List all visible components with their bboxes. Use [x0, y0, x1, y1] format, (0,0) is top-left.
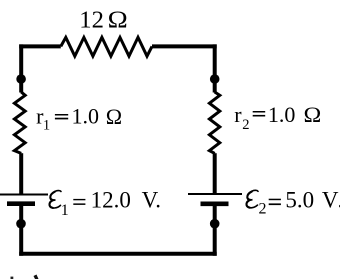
- wire bottom horizontal: [19, 252, 217, 256]
- wire left vertical lower: [19, 153, 23, 194]
- svg-text:1.0: 1.0: [268, 102, 296, 127]
- resistor 12-ohm (top): [61, 37, 152, 56]
- wire below battery E2: [213, 206, 217, 256]
- svg-text:V: V: [322, 188, 339, 213]
- label E1 equals top bar: [73, 199, 85, 200]
- svg-text:1: 1: [61, 202, 69, 219]
- svg-text:12: 12: [79, 8, 104, 34]
- svg-text:5.0: 5.0: [285, 188, 314, 213]
- svg-text:V.: V.: [142, 188, 161, 213]
- svg-text:12.0: 12.0: [91, 188, 131, 213]
- wire right vertical upper: [213, 44, 217, 92]
- wire top-right horizontal: [152, 44, 217, 48]
- svg-text:Ω: Ω: [108, 7, 128, 33]
- script E1 glyph: [50, 191, 62, 209]
- battery E1 positive plate (long thin): [0, 194, 48, 196]
- resistor r1 (left): [14, 92, 25, 153]
- cut-off text fragment dot (bottom left): [11, 277, 14, 279]
- battery E2 positive plate (long thin): [188, 193, 242, 195]
- node junction dot right top: [210, 74, 220, 84]
- svg-text:1.0: 1.0: [72, 103, 100, 128]
- node junction dot right bottom: [210, 219, 220, 229]
- label r1 equals top bar: [55, 114, 68, 116]
- wire top-left horizontal: [19, 44, 61, 48]
- svg-text:1: 1: [43, 117, 50, 133]
- battery E1 negative plate (short thick): [7, 201, 35, 206]
- wire below battery E1: [19, 206, 23, 256]
- svg-text:Ω: Ω: [106, 104, 122, 129]
- svg-text:2: 2: [242, 117, 249, 133]
- resistor r2 (right): [209, 92, 219, 153]
- script E2 glyph: [247, 190, 259, 208]
- label E1 equals bottom bar: [73, 203, 85, 205]
- label r2 equals bottom bar: [253, 115, 266, 117]
- svg-text:2: 2: [259, 201, 267, 218]
- label E2 equals bottom bar: [269, 203, 281, 205]
- label r2 equals top bar: [253, 111, 266, 113]
- label r1 equals bottom bar: [55, 118, 68, 120]
- node junction dot left bottom: [16, 219, 26, 229]
- wire left vertical upper: [19, 44, 23, 92]
- wire right vertical lower: [213, 153, 217, 194]
- svg-text:r: r: [234, 102, 242, 127]
- cut-off text fragment diagonal (bottom): [34, 275, 39, 279]
- svg-text:Ω: Ω: [304, 102, 322, 127]
- battery E2 negative plate (short thick): [201, 202, 229, 207]
- label E2 equals top bar: [269, 199, 281, 201]
- node junction dot left top: [16, 74, 26, 84]
